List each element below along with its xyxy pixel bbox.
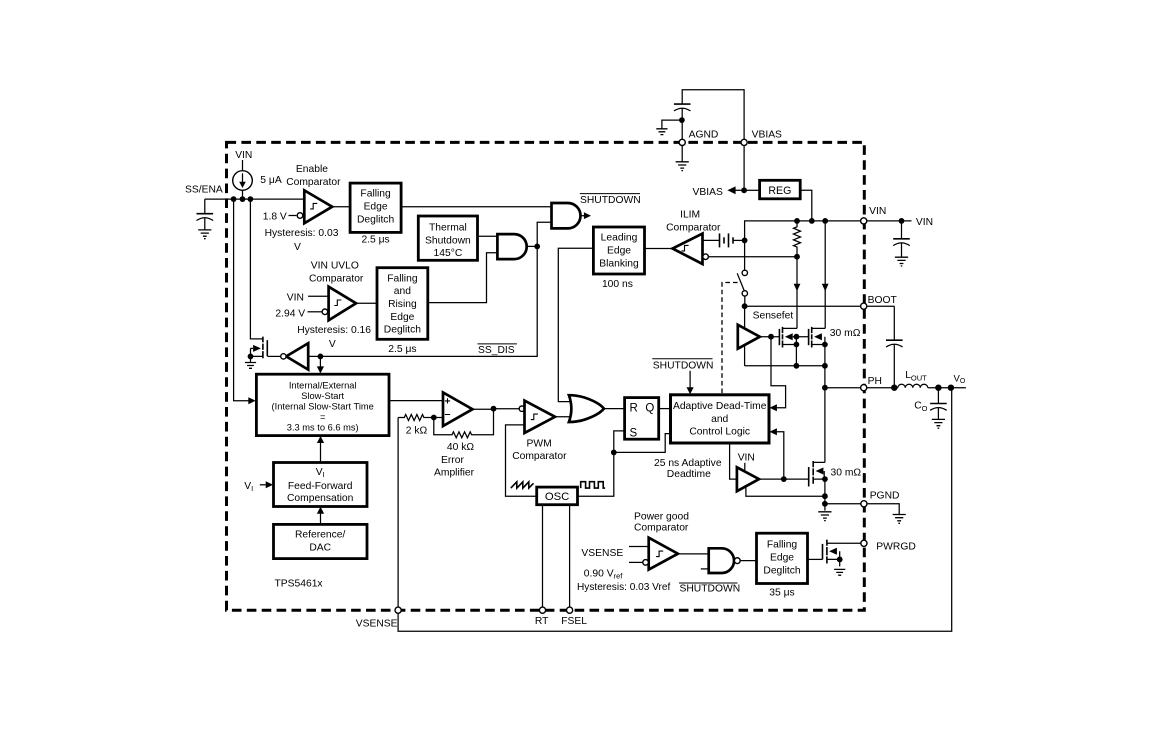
node AGND cap junction [679,117,685,123]
resistor sense [794,221,801,257]
svg-text:Edge: Edge [390,312,414,323]
wire pg comp to NAND [678,553,709,555]
svg-text:Control Logic: Control Logic [689,427,750,438]
svg-text:and: and [394,286,411,297]
wire enable comp to deglitch [332,206,350,208]
svg-text:Shutdown: Shutdown [425,235,471,246]
capacitor SS external [204,199,206,213]
svg-text:Feed-Forward: Feed-Forward [288,481,353,492]
wire REG to VIN rail [800,190,812,221]
svg-text:145°C: 145°C [434,248,463,259]
wire SS node to slow-start input arrow [234,199,249,401]
wire LEB to OR gate [558,248,593,401]
svg-text:Deglitch: Deglitch [357,215,394,226]
svg-text:Falling: Falling [767,540,798,551]
pin BOOT [861,303,867,309]
ground (SS discharge) [245,363,256,369]
svg-text:40 kΩ: 40 kΩ [447,442,474,453]
wire to big AND lower input [537,222,551,246]
wire VBIAS node to REG [744,189,760,191]
NAND gate power good [701,568,709,570]
wire thermal to AND [478,235,498,237]
latch RS flip-flop [625,398,659,440]
svg-text:VSENSE: VSENSE [581,548,623,559]
wire BOOT line [745,305,895,307]
wire NAND to deglitch [740,559,756,560]
block thermal shutdown [418,216,477,260]
wire S input from dead-time [614,431,671,453]
wire FSEL [569,505,571,611]
wire rail to FET2 drain with arrow [824,221,826,329]
svg-text:Hysteresis: 0.16: Hysteresis: 0.16 [297,325,371,336]
arrow VBIAS out [735,189,744,191]
svg-text:Adaptive Dead-Time: Adaptive Dead-Time [673,401,767,412]
inverter SS_DIS [286,343,308,369]
svg-text:PH: PH [868,376,882,387]
node external VIN [899,218,905,224]
node driver return [822,493,828,499]
svg-text:SS/ENA: SS/ENA [185,184,223,195]
svg-text:Leading: Leading [601,233,638,244]
wire SS_DIS [308,246,537,356]
svg-text:AGND: AGND [689,130,719,141]
svg-text:Falling: Falling [387,273,418,284]
block falling edge deglitch (enable) [350,183,401,232]
svg-text:SS_DIS: SS_DIS [478,345,515,356]
svg-text:Q: Q [645,403,654,415]
svg-text:VIN: VIN [738,453,755,464]
capacitor Co [937,388,939,403]
svg-text:1.8 V: 1.8 V [263,212,287,223]
op-amp error amplifier [443,392,473,426]
wire to left ground [662,120,682,128]
IC boundary dashed box U1 TPS5461x [227,142,865,610]
svg-text:Slow-Start: Slow-Start [301,391,344,401]
svg-text:R: R [630,403,638,415]
pin VIN [861,218,867,224]
svg-text:DAC: DAC [309,543,331,554]
svg-text:VIN: VIN [235,150,252,161]
svg-text:VIN: VIN [869,206,886,217]
node S-OSC [611,450,617,456]
ground (Co) [932,419,945,428]
block feed-forward compensation [274,463,368,507]
svg-text:Comparator: Comparator [309,273,364,284]
pin PWRGD [861,540,867,546]
pin FSEL [567,607,573,613]
node BOOT-driver [742,303,748,309]
wire gate high-side [760,336,780,338]
svg-text:3.3 ms to 6.6 ms): 3.3 ms to 6.6 ms) [287,422,359,432]
pulse waveform [581,482,605,488]
wire latch Q to dead-time [659,408,671,410]
transistor Q2 main high FET [808,329,810,345]
arrow FF to slow-start [320,441,322,462]
svg-text:Hysteresis: 0.03: Hysteresis: 0.03 [265,228,339,239]
block falling and rising edge deglitch (UVLO) [377,268,428,340]
svg-text:Internal/External: Internal/External [289,380,357,390]
svg-text:(Internal Slow-Start Time: (Internal Slow-Start Time [272,401,374,411]
svg-text:PWM: PWM [527,438,552,449]
ILIM inverting input wire [703,254,709,260]
wire source rail to PH [745,365,825,367]
node battery-rail [742,238,748,244]
svg-text:Comparator: Comparator [666,222,721,233]
wire OR to latch R [604,408,625,410]
block reference DAC [274,524,368,558]
oscillator OSC [537,487,578,505]
svg-text:RT: RT [535,616,549,627]
svg-text:Deglitch: Deglitch [384,325,421,336]
node error amp out [491,406,497,412]
ground (PWRGD FET) [834,569,845,575]
svg-text:SHUTDOWN: SHUTDOWN [680,584,741,595]
wire error amp out [473,408,520,411]
svg-text:Edge: Edge [364,202,388,213]
svg-text:VSENSE: VSENSE [356,619,398,630]
pin AGND [679,139,685,145]
svg-text:Deglitch: Deglitch [763,566,800,577]
svg-text:Comparator: Comparator [286,177,341,188]
dashed control wire to logic [722,283,738,395]
arrow into slow-start top [319,356,321,366]
svg-text:S: S [630,428,638,440]
resistor R1 2k [398,415,434,421]
svg-text:Edge: Edge [770,553,794,564]
svg-text:Comparator: Comparator [512,451,567,462]
block slow-start [256,374,389,435]
pin PH [861,385,867,391]
svg-text:OSC: OSC [545,491,569,503]
ground (left of AGND cap) [656,129,667,135]
regulator REG [760,180,801,199]
sawtooth waveform [511,482,534,488]
capacitor boot [893,306,895,340]
wire AGND to ground [681,146,683,162]
capacitor VIN bypass [901,221,903,239]
node sense bottom [794,254,800,260]
svg-text:TPS5461x: TPS5461x [275,579,324,590]
wire gate feedback to dead-time logic [771,337,786,408]
wire sense to FET1 drain with arrow [796,257,798,329]
svg-text:Edge: Edge [607,246,631,257]
node low source [822,476,828,482]
svg-text:PGND: PGND [870,491,900,502]
wire dead-time to low driver [730,443,737,479]
node rail-FET2 [822,218,828,224]
AND gate SHUTDOWN [552,203,581,228]
svg-text:FSEL: FSEL [561,616,587,627]
svg-text:REG: REG [768,185,791,197]
node SS b [240,196,246,202]
svg-text:Enable: Enable [296,164,328,175]
svg-text:30 mΩ: 30 mΩ [830,328,861,339]
wire VIN rail [745,221,912,241]
ground (PGND external) [893,515,906,524]
wire OSC pulse to latch S [578,452,614,496]
svg-text:Comparator: Comparator [634,522,689,533]
svg-text:2.5 μs: 2.5 μs [361,234,389,245]
AND gate (thermal+uvlo) [497,234,526,259]
wire gate low-side [759,478,809,480]
node SS a [231,196,237,202]
pin RT [539,607,545,613]
wire VBIAS bypass top [682,90,744,143]
svg-text:2 kΩ: 2 kΩ [406,425,428,436]
wire UVLO deglitch to AND [428,253,498,303]
wire UVLO comp to deglitch [356,302,377,304]
wire deglitch1 to AND [401,206,551,208]
node PH internal [822,385,828,391]
svg-text:SHUTDOWN: SHUTDOWN [580,195,641,206]
svg-text:100 ns: 100 ns [602,279,633,290]
transistor Q1 sense FET [778,329,780,345]
wire low gate feedback to dead-time [772,432,784,479]
node Vsense return [948,385,954,391]
wire Vout [928,387,966,389]
svg-text:Reference/: Reference/ [295,530,346,541]
svg-text:Error: Error [441,455,464,466]
node VBIAS internal [741,187,747,193]
ground (below AGND) [676,162,689,171]
wire AND out [527,245,538,247]
OR gate [569,395,604,422]
wire VBIAS pin to REG node [743,146,745,191]
wire RT [542,505,544,611]
svg-text:V: V [294,242,301,253]
node SS c [248,196,254,202]
svg-text:Compensation: Compensation [287,493,354,504]
block adaptive dead-time and control logic [671,395,770,443]
node PH-inductor [891,385,897,391]
ground (low source) [818,512,831,521]
ground (SS cap) [198,230,211,239]
svg-text:Power good: Power good [634,511,689,522]
arrow ref to FF [320,512,322,525]
svg-text:25 ns Adaptive: 25 ns Adaptive [654,458,722,469]
svg-text:Thermal: Thermal [429,223,467,234]
svg-text:VBIAS: VBIAS [693,187,723,198]
driver high-side [744,306,746,329]
capacitor VBIAS bypass [674,104,691,111]
svg-text:30 mΩ: 30 mΩ [831,467,862,478]
node AND out [534,244,540,250]
svg-text:SHUTDOWN: SHUTDOWN [653,360,714,371]
svg-text:VBIAS: VBIAS [752,130,782,141]
wire ILIM comp to LEB [645,248,673,250]
svg-text:VIN: VIN [916,217,933,228]
wire slow-start to error amp [389,400,443,402]
transistor Q5 SS discharge [250,199,263,339]
node gate feedback [768,334,774,340]
svg-text:Sensefet: Sensefet [753,311,794,322]
svg-text:ILIM: ILIM [680,210,700,221]
node rail-resistor [794,218,800,224]
wire PGND [825,504,899,514]
svg-text:Falling: Falling [360,189,391,200]
transistor Q3 low-side FET [808,467,810,487]
svg-text:Blanking: Blanking [599,258,639,269]
node inverting input [431,415,437,421]
wire PWM out to OR [555,416,572,418]
block leading edge blanking [593,227,644,274]
svg-text:Hysteresis: 0.03 Vref: Hysteresis: 0.03 Vref [577,582,671,593]
pin PGND [861,501,867,507]
block falling edge deglitch (pwrgd) [757,533,808,583]
svg-text:2.94 V: 2.94 V [275,308,305,319]
pin SS/ENA wire [205,198,304,200]
svg-text:and: and [711,414,728,425]
resistor R2 40k feedback [434,409,494,438]
wire VSENSE feedback [398,388,952,632]
pin VBIAS [741,139,747,145]
svg-text:V: V [329,339,336,350]
svg-text:35 μs: 35 μs [769,587,794,598]
wire osc ramp to PWM [506,425,537,496]
node inverter input [318,354,324,360]
svg-text:PWRGD: PWRGD [876,541,915,552]
node Co [935,385,941,391]
svg-text:2.5 μs: 2.5 μs [388,344,416,355]
node PGND internal [822,501,828,507]
switch ILIM enable [744,240,746,270]
battery offset ILIM [703,239,720,241]
node low gate [781,476,787,482]
pin VSENSE [395,607,401,613]
svg-text:Amplifier: Amplifier [434,467,475,478]
svg-text:5 μA: 5 μA [260,175,282,186]
svg-text:VIN: VIN [287,293,304,304]
svg-text:VIN UVLO: VIN UVLO [311,261,359,272]
svg-text:BOOT: BOOT [868,295,898,306]
svg-text:Deadtime: Deadtime [667,469,711,480]
inductor LOUT [825,387,898,389]
svg-text:Rising: Rising [388,299,417,310]
ground (VIN cap) [895,257,908,266]
svg-text:=: = [320,412,325,422]
transistor Q4 PWRGD [808,558,823,560]
op-amp PWM comparator [519,406,524,411]
node rail-REG [809,218,815,224]
